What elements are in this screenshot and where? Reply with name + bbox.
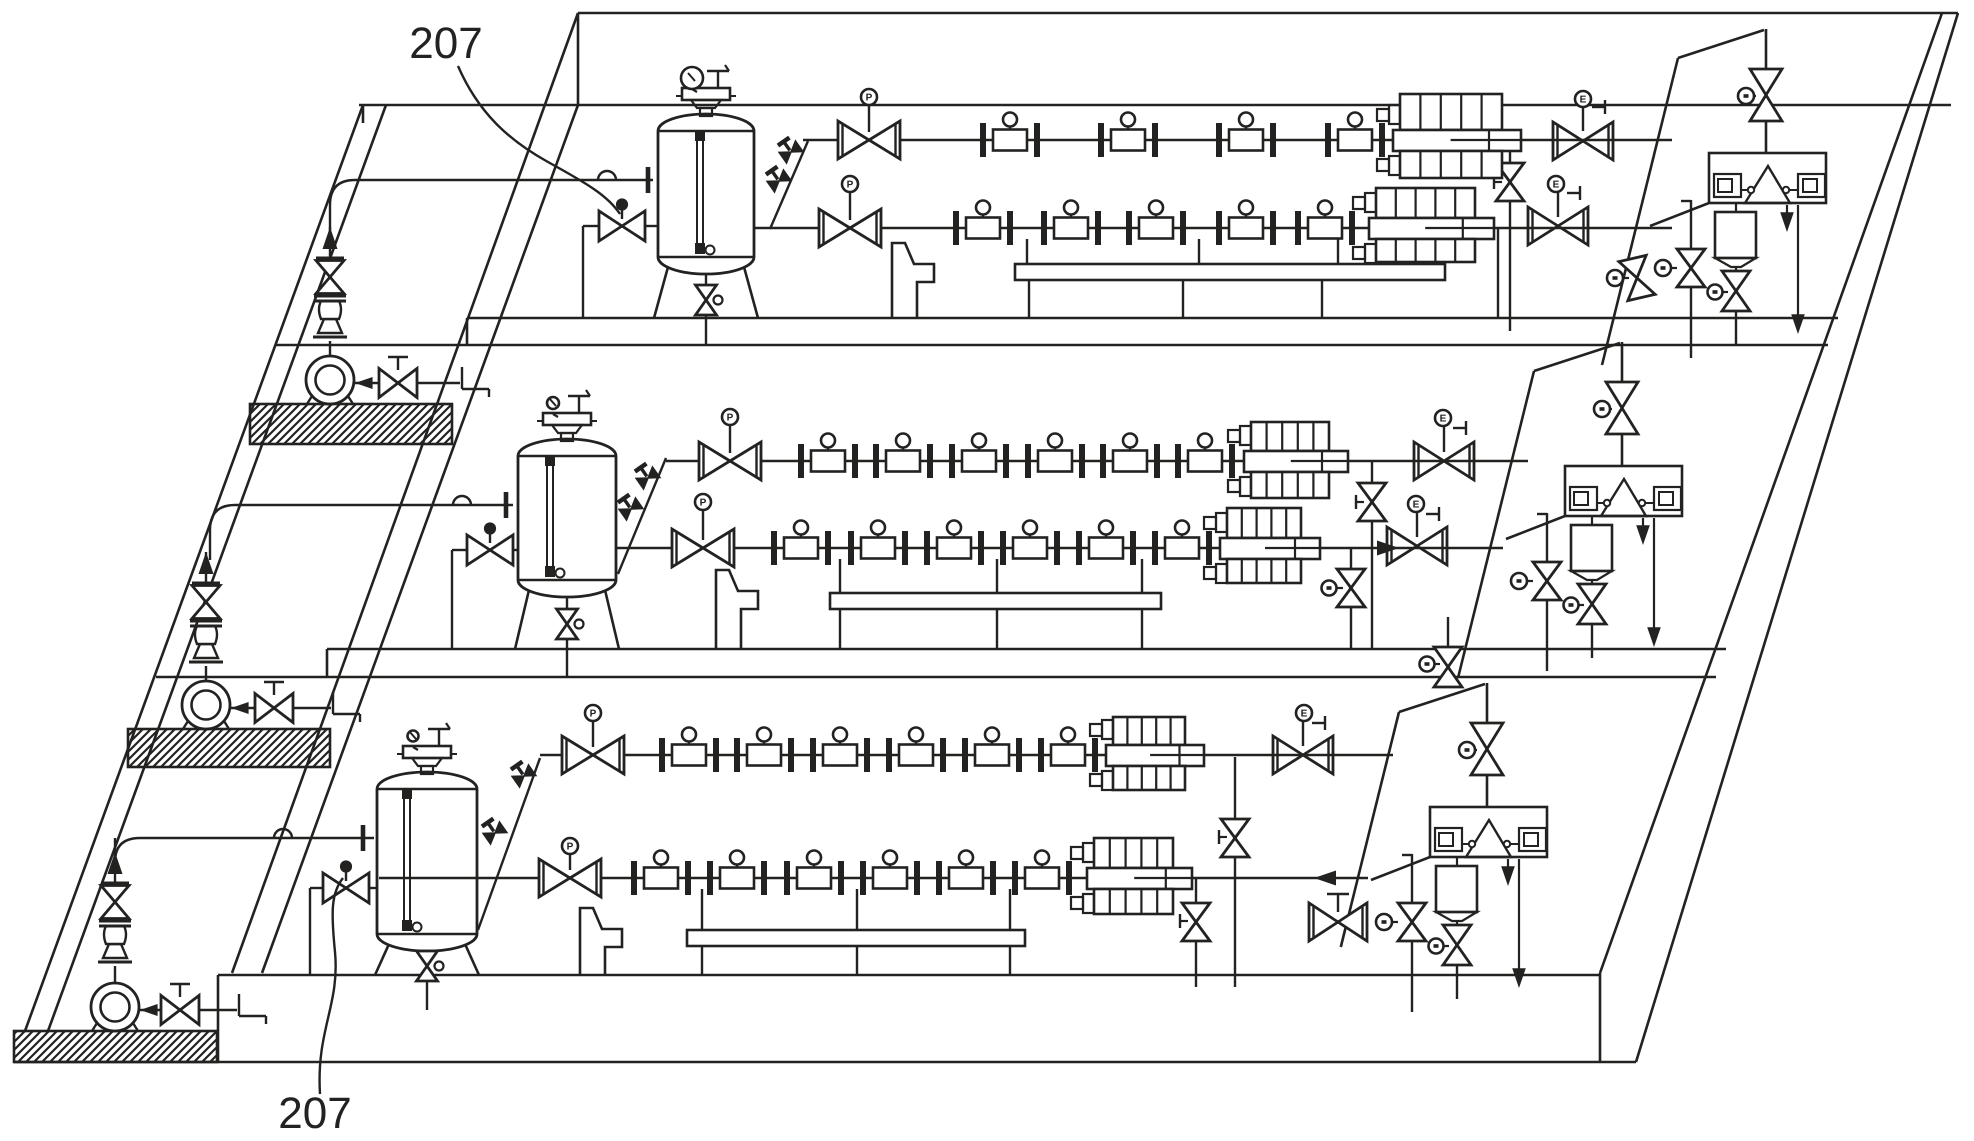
tank level tube — [696, 135, 698, 249]
tier3 vent arrows — [1507, 859, 1509, 878]
tier1 riser to flare line — [1602, 58, 1678, 365]
tier2 vent assembly — [1565, 466, 1682, 516]
right inner stair diagonal — [1600, 13, 1942, 973]
tier1 upper run — [803, 139, 1672, 141]
tier1 lower run — [754, 227, 1672, 229]
discharge riser — [114, 966, 116, 983]
tier1 vent arrows — [1786, 205, 1788, 224]
pump suction valve — [231, 702, 249, 714]
tier3 riser to flare line — [1341, 712, 1399, 947]
tier2 lower filter bank — [1204, 517, 1216, 529]
tank pressure gauge — [547, 397, 559, 409]
tier1 lower run block valve — [1528, 207, 1558, 245]
tier3 tank inlet valve — [370, 887, 379, 889]
right outer stair diagonal — [1636, 13, 1958, 1062]
tier1 drain valve — [1722, 271, 1750, 291]
tier3 support bracket — [580, 908, 622, 975]
riser check assembly — [189, 661, 223, 664]
tank vent tee — [568, 395, 590, 398]
riser flow arrow — [205, 552, 207, 583]
svg-text:E: E — [1413, 499, 1420, 510]
tier1 drop after lower filter bank — [1497, 228, 1499, 318]
svg-text:P: P — [727, 412, 734, 423]
svg-text:E: E — [1301, 708, 1308, 719]
tank pressure gauge — [408, 731, 419, 742]
tank vent tee — [707, 70, 729, 73]
tank legs — [375, 944, 389, 975]
tier1 upper filter bank — [1377, 109, 1389, 121]
tier2 vent arrows — [1642, 518, 1644, 537]
tier2 slant pipe — [618, 458, 666, 574]
tank level tube — [546, 460, 548, 572]
tank vessel — [518, 439, 616, 597]
tier2 comb outlet valves — [1371, 461, 1373, 649]
tier3 upper run block valve — [1273, 736, 1303, 774]
right end vertical edge — [1599, 973, 1602, 1062]
tier3 slant pipe — [478, 758, 540, 930]
tier2 upper flow meters — [798, 444, 804, 478]
tier3 flare inlet valve — [1471, 723, 1503, 749]
tier1 flare inlet valve — [1750, 69, 1782, 95]
tier2-3 band valve — [1447, 617, 1449, 683]
tier1 support bracket — [892, 243, 934, 318]
tier2 run arrow — [1377, 541, 1399, 556]
tier3 lower run — [379, 877, 1368, 879]
tier1 floor back line — [359, 104, 1951, 107]
tier2 pipe to vent assembly — [1506, 516, 1565, 539]
riser check assembly — [98, 961, 132, 964]
pump suction valve — [355, 377, 373, 389]
tier3 run arrow — [1314, 871, 1336, 886]
tier2 slant valve glyphs — [614, 491, 643, 520]
riser check assembly — [313, 336, 347, 339]
tier2 support bracket — [716, 570, 758, 649]
left outer stair diagonal 2 — [48, 105, 386, 1031]
tank vent tee — [428, 728, 450, 731]
left outer stair diagonal — [25, 105, 363, 1031]
tier1 feed pipe — [329, 205, 331, 230]
tier3 bypass valve b — [1411, 854, 1413, 1012]
tier2 lower flow meters — [771, 531, 777, 565]
bottom edge — [14, 1061, 1636, 1064]
tier3 upper flow meters — [659, 738, 665, 772]
pipe stub — [461, 367, 463, 389]
tier3 front edge — [218, 974, 1600, 977]
tier2 upper run — [666, 460, 1528, 462]
left inner stair diagonal 2 — [262, 105, 578, 973]
discharge riser — [205, 666, 207, 681]
tier3 pipe to vent assembly — [1371, 857, 1430, 880]
tier1 platform left vertical edge — [577, 13, 580, 105]
pump suction valve — [140, 1004, 158, 1016]
tier3 comb outlet valves — [1234, 757, 1236, 987]
tier3 seal pot — [1456, 857, 1458, 866]
tier1 lower flow meters — [953, 211, 959, 245]
tier1 vent assembly — [1709, 153, 1826, 203]
tier1 lower control valve — [819, 209, 850, 247]
tier3 vent assembly — [1430, 807, 1547, 857]
tier3 upper control valve — [562, 736, 593, 774]
tank pressure gauge — [681, 67, 703, 89]
svg-text:P: P — [590, 708, 597, 719]
riser valve — [316, 261, 344, 278]
discharge riser — [329, 341, 331, 356]
tier2 front face left vertical — [326, 649, 329, 677]
leader line bottom — [320, 878, 343, 1094]
tank top fittings — [543, 413, 591, 425]
tier3 lower filter bank — [1071, 847, 1083, 859]
tier1 bypass valve b — [1690, 200, 1692, 358]
tier3 feed pipe — [114, 838, 116, 862]
meter manifold tray — [1015, 264, 1445, 280]
tank drain pipe — [426, 950, 428, 1010]
tank drain pipe — [566, 596, 568, 677]
pipe stub — [332, 692, 334, 714]
tier1 slant valve glyphs — [774, 134, 803, 163]
tier2 front face bottom edge — [156, 676, 1716, 679]
tier2 flare inlet valve — [1606, 382, 1638, 408]
meter manifold tray — [830, 593, 1161, 609]
tier2 upper filter bank — [1228, 430, 1240, 442]
svg-text:P: P — [567, 841, 574, 852]
svg-text:207: 207 — [278, 1089, 351, 1136]
tier3 left front vertical edge — [217, 975, 220, 1062]
tier2 feed pipe — [209, 530, 211, 560]
svg-text:E: E — [1440, 413, 1447, 424]
tank legs — [515, 590, 529, 649]
tier2 lower run block valve — [1387, 527, 1417, 565]
svg-text:E: E — [1553, 179, 1560, 190]
meter manifold tray — [687, 930, 1025, 946]
tier1 platform back top edge — [578, 12, 1958, 15]
tier3 upper run — [540, 754, 1393, 756]
tank legs — [654, 267, 668, 318]
tank drain valve — [417, 951, 438, 966]
riser flow arrow — [329, 227, 331, 258]
pump foundation pad — [128, 729, 330, 767]
tier2 riser to flare line — [1458, 371, 1534, 678]
riser valve — [101, 886, 129, 903]
tier1 upper flow meters — [980, 123, 986, 157]
tier3 lower control valve — [539, 859, 570, 897]
tier2 upper control valve — [699, 442, 730, 480]
tier2 bypass valve b — [1546, 513, 1548, 671]
tier1 tank inlet valve — [646, 225, 658, 227]
tier2 drain valve — [1578, 584, 1606, 604]
pump foundation pad — [14, 1031, 217, 1062]
tier2 seal pot — [1591, 516, 1593, 525]
tank top fittings — [682, 88, 730, 100]
riser valve — [192, 586, 220, 603]
tank top fittings — [403, 746, 451, 758]
svg-text:P: P — [700, 497, 707, 508]
tank level tube — [403, 793, 405, 926]
pump — [306, 356, 354, 404]
tier1 upper control valve — [838, 121, 869, 159]
tier2 upper run block valve — [1414, 442, 1444, 480]
svg-text:207: 207 — [409, 19, 482, 68]
svg-text:E: E — [1580, 94, 1587, 105]
left inner stair diagonal — [232, 13, 578, 973]
tier2 front edge — [327, 648, 1726, 651]
tank vessel — [377, 772, 477, 951]
svg-text:P: P — [866, 92, 873, 103]
tank drain pipe — [705, 273, 707, 345]
leader line top — [458, 66, 620, 214]
tier1 front face left vertical — [466, 318, 469, 345]
tier3 drain valve — [1443, 925, 1471, 945]
tier3 upper filter bank — [1090, 724, 1102, 736]
tier1 bypass valve a — [1509, 140, 1511, 331]
pump — [182, 681, 230, 729]
tank drain valve — [557, 609, 578, 624]
tier1 slant pipe — [770, 141, 808, 229]
tank vessel — [658, 114, 754, 274]
pump foundation pad — [250, 404, 452, 444]
tank drain valve — [696, 285, 717, 300]
tier1 front edge — [467, 317, 1838, 320]
corner notch — [362, 105, 365, 123]
tier2 tank inlet valve — [514, 549, 519, 551]
tier1 slant valve — [1619, 255, 1655, 300]
pump — [91, 983, 139, 1031]
riser flow arrow — [114, 852, 116, 883]
tier2 lower run — [615, 547, 1503, 549]
tier3 slant valve glyphs — [478, 815, 507, 844]
tier3 lower run block valve — [1309, 903, 1338, 941]
svg-text:P: P — [847, 179, 854, 190]
tier1 lower filter bank — [1353, 197, 1365, 209]
tier2 lower control valve — [672, 529, 703, 567]
tier1 pipe to vent assembly — [1650, 203, 1709, 226]
tier1 seal pot — [1735, 203, 1737, 212]
pipe stub — [238, 994, 240, 1016]
tier1 upper run block valve — [1553, 122, 1583, 160]
tier3 lower flow meters — [631, 861, 637, 895]
tier1 front face bottom edge — [275, 344, 1828, 347]
